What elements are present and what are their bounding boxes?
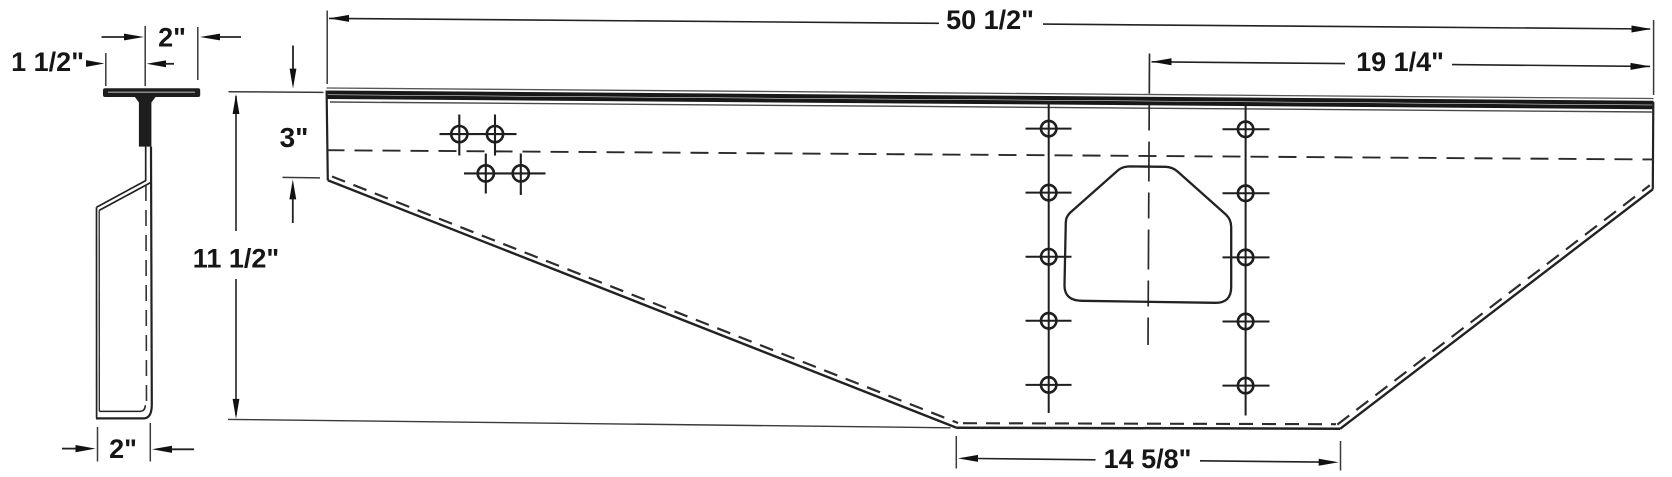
dim line 14 5/8 right segment: [1200, 461, 1320, 462]
bolt hole column right: [1238, 122, 1253, 394]
3" top arrow (down): [290, 69, 297, 89]
dim line left tail: [62, 448, 76, 450]
dim line 19 1/4 right segment: [1452, 65, 1650, 67]
right taper edge: [1340, 189, 1653, 428]
top flange thick line A: [327, 93, 1654, 103]
svg-text:19 1/4": 19 1/4": [1356, 47, 1444, 77]
svg-text:11 1/2": 11 1/2": [193, 244, 279, 274]
top flange thin lower line: [330, 102, 1654, 112]
11 1/2 dim line lower segment: [235, 279, 237, 415]
hidden bend line along right taper (dashed): [1337, 185, 1650, 424]
plate left edge: [327, 91, 328, 181]
extension line 14.625 right: [1340, 441, 1342, 471]
left taper edge: [328, 180, 956, 427]
extension line 11.5 top / 3 top (shared): [229, 91, 324, 94]
11 1/2 top arrow (up): [233, 94, 240, 114]
svg-text:14 5/8": 14 5/8": [1104, 444, 1192, 474]
crosshairs column left: [1026, 102, 1072, 414]
tow hole cutout: [1064, 166, 1231, 302]
extension line 50.5 left: [326, 11, 328, 85]
horizontal center line (chain): [327, 150, 1655, 159]
arrow left 50 1/2: [329, 15, 349, 22]
arrow right toward foot left: [76, 445, 96, 452]
bend diagonal outer: [97, 181, 146, 208]
bolt hole group A1: [451, 126, 529, 181]
dim line 50 1/2 right segment: [1043, 24, 1650, 29]
11 1/2 bottom arrow (down): [233, 399, 240, 419]
extension line bottom-left of foot: [97, 427, 99, 462]
extension line bottom-right of foot: [149, 423, 151, 462]
svg-text:2": 2": [109, 434, 137, 464]
arrow left toward right flange line: [200, 34, 220, 41]
plate bottom edge: [956, 428, 1340, 429]
plate edge pair below web: [145, 147, 147, 181]
bend diagonal inner: [99, 182, 151, 210]
extension line 3 bottom: [283, 176, 321, 179]
arrow left from foot right: [152, 446, 172, 453]
left face inner line: [98, 210, 100, 411]
foot inner bottom line: [99, 405, 145, 411]
svg-text:50 1/2": 50 1/2": [946, 5, 1034, 35]
arrow right toward web line: [124, 34, 144, 41]
short tail of arrow: [165, 63, 174, 65]
flange inner highlight: [108, 91, 195, 93]
svg-text:3": 3": [280, 122, 309, 153]
arrow left 19 1/4: [1152, 58, 1172, 65]
top flange thick line B: [327, 97, 1654, 107]
3" bottom arrow tail: [292, 198, 294, 223]
plate back edge, runs to bottom with corner: [96, 147, 152, 419]
extension line 11.5 bottom (long): [228, 419, 951, 427]
hidden edge of plate front face (dashed): [145, 185, 148, 404]
crosshairs group A1: [440, 115, 546, 196]
tee web (section, solid black): [135, 97, 157, 147]
extension line 50.5/19.25 right: [1653, 20, 1655, 95]
top flange thin upper line: [327, 88, 1654, 99]
extension line right flange edge: [197, 27, 199, 80]
11 1/2 dim line upper segment: [235, 96, 237, 231]
dim line 14 5/8 left segment: [977, 459, 1096, 460]
plate right edge: [1652, 102, 1655, 189]
extension line 14.625 left: [955, 436, 957, 469]
vertical center line through cutout: [1148, 54, 1150, 346]
arrow left 14 5/8: [958, 455, 978, 462]
3" bottom arrow (up): [289, 179, 296, 199]
arrow right toward left flange edge: [86, 60, 105, 67]
svg-text:2": 2": [158, 23, 186, 53]
arrow left from web line: [147, 60, 167, 67]
dim line right segment: [219, 36, 241, 38]
bolt hole column left: [1041, 121, 1056, 393]
dim line right tail: [171, 448, 194, 450]
extension line web center: [144, 26, 146, 86]
svg-text:1 1/2": 1 1/2": [11, 47, 84, 77]
tee flange (section, solid black): [103, 88, 200, 97]
arrow right 19 1/4: [1631, 63, 1651, 70]
arrow right 14 5/8: [1319, 459, 1339, 466]
dimension 2" (top flange half) dim line left segment: [102, 36, 127, 38]
dim line 19 1/4 left segment: [1152, 62, 1346, 64]
crosshairs column right: [1223, 103, 1270, 416]
hidden bend line along bottom (dashed): [963, 423, 1336, 424]
hidden bend line along left taper (dashed): [332, 177, 958, 424]
dim line 50 1/2 left segment: [329, 18, 939, 23]
extension line left flange edge: [105, 53, 107, 86]
arrow right 50 1/2: [1632, 26, 1652, 33]
left face outer line: [96, 207, 98, 418]
3" top arrow tail: [292, 46, 294, 71]
